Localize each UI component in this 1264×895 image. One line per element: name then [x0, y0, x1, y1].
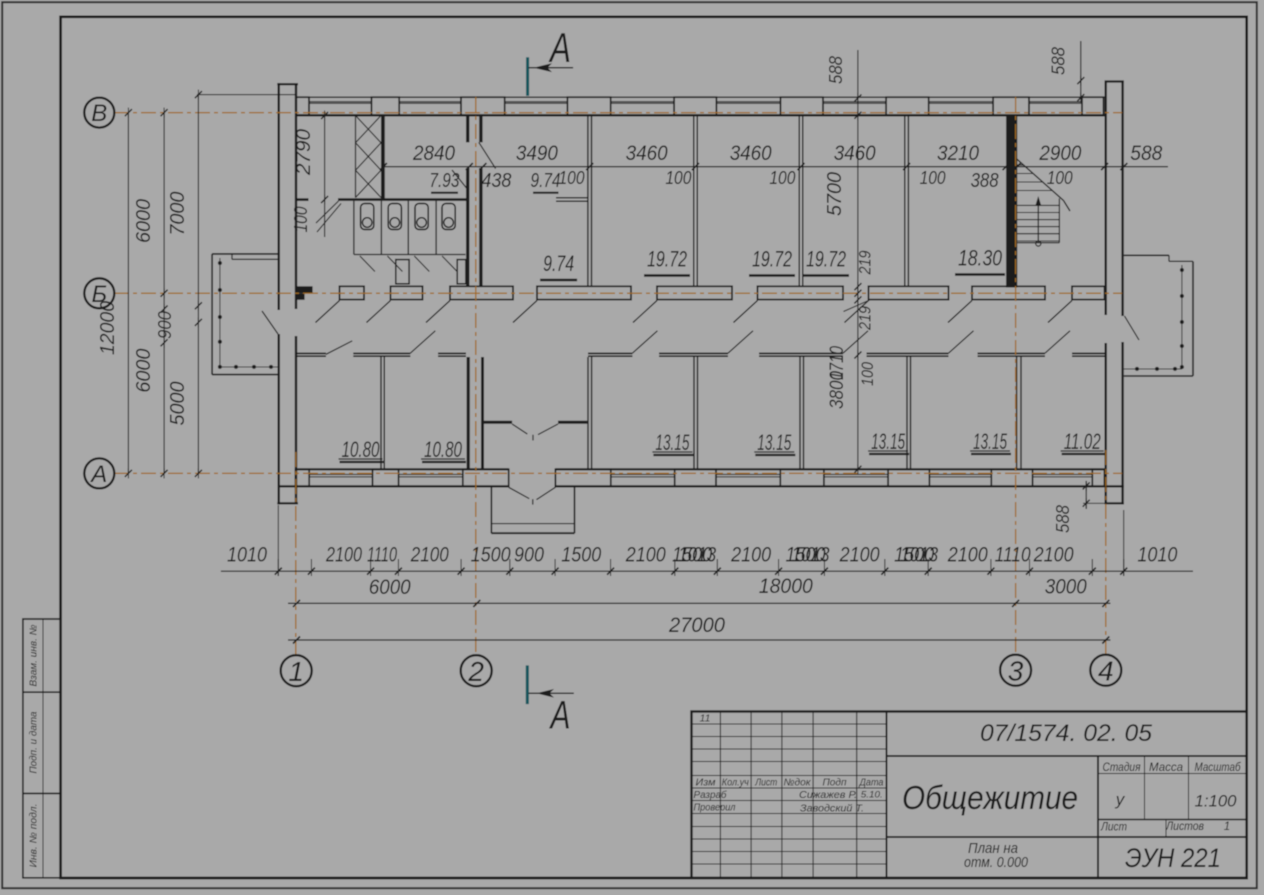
svg-text:5700: 5700 [824, 172, 846, 216]
svg-text:900: 900 [514, 544, 544, 567]
svg-text:A: A [549, 694, 570, 738]
svg-text:100: 100 [665, 168, 691, 188]
svg-text:10.80: 10.80 [342, 437, 381, 462]
svg-text:10.80: 10.80 [424, 437, 463, 462]
svg-text:3490: 3490 [516, 141, 558, 165]
svg-text:у: у [1115, 790, 1126, 809]
svg-text:19.72: 19.72 [647, 247, 687, 272]
svg-text:07/1574. 02. 05: 07/1574. 02. 05 [980, 720, 1153, 747]
svg-text:5.10.: 5.10. [861, 790, 883, 801]
svg-text:Масштаб: Масштаб [1195, 762, 1241, 774]
svg-text:ЭУН 221: ЭУН 221 [1125, 843, 1221, 873]
svg-text:438: 438 [481, 170, 511, 192]
svg-text:2100: 2100 [839, 544, 880, 567]
svg-text:4: 4 [1098, 655, 1114, 686]
svg-text:Б: Б [91, 281, 107, 308]
svg-text:Дата: Дата [859, 778, 884, 789]
svg-text:100: 100 [858, 362, 877, 386]
svg-text:1010: 1010 [1137, 544, 1177, 567]
svg-text:Кол.уч: Кол.уч [722, 778, 749, 789]
svg-text:100: 100 [920, 168, 946, 188]
svg-text:3460: 3460 [626, 141, 668, 165]
svg-text:6000: 6000 [133, 199, 155, 243]
svg-text:Заводский Т.: Заводский Т. [800, 804, 864, 815]
svg-text:1010: 1010 [227, 544, 267, 567]
svg-text:2790: 2790 [293, 129, 315, 176]
svg-text:588: 588 [826, 56, 846, 84]
svg-text:388: 388 [971, 170, 999, 192]
svg-text:2100: 2100 [1033, 544, 1074, 567]
svg-text:1: 1 [1224, 821, 1230, 833]
svg-text:11: 11 [700, 713, 711, 725]
svg-text:Изм: Изм [696, 778, 716, 789]
svg-text:2100: 2100 [947, 544, 988, 567]
svg-text:1:100: 1:100 [1195, 792, 1238, 811]
svg-text:Стадия: Стадия [1103, 762, 1141, 774]
svg-text:2: 2 [467, 656, 484, 687]
svg-text:3: 3 [1008, 655, 1024, 686]
svg-text:2100: 2100 [410, 544, 449, 567]
svg-text:Сижажев Р.: Сижажев Р. [799, 790, 857, 801]
svg-text:Взам. инв. №: Взам. инв. № [29, 624, 40, 686]
svg-text:5000: 5000 [167, 382, 189, 426]
svg-text:Подп. и дата: Подп. и дата [29, 711, 40, 773]
svg-text:2100: 2100 [325, 544, 362, 567]
svg-text:18000: 18000 [759, 575, 813, 598]
svg-text:1013: 1013 [792, 544, 830, 567]
svg-text:6000: 6000 [369, 576, 411, 599]
svg-text:7.93: 7.93 [429, 170, 459, 192]
svg-text:19.72: 19.72 [752, 247, 792, 272]
svg-text:Лист: Лист [754, 778, 777, 789]
svg-text:3000: 3000 [1045, 576, 1087, 599]
svg-text:100: 100 [291, 207, 311, 233]
svg-text:2900: 2900 [1039, 141, 1082, 165]
svg-text:1500: 1500 [561, 544, 601, 567]
svg-text:7000: 7000 [167, 192, 189, 236]
svg-text:Инв. № подл.: Инв. № подл. [29, 804, 40, 868]
svg-text:9.74: 9.74 [543, 251, 574, 276]
svg-text:6000: 6000 [133, 349, 155, 393]
svg-text:13.15: 13.15 [973, 429, 1007, 454]
svg-text:100: 100 [559, 168, 585, 188]
svg-text:900: 900 [155, 311, 175, 339]
svg-text:2100: 2100 [730, 544, 771, 567]
svg-text:1110: 1110 [367, 544, 397, 567]
svg-text:Общежитие: Общежитие [902, 779, 1078, 816]
svg-text:100: 100 [1047, 168, 1073, 188]
svg-text:3460: 3460 [834, 141, 876, 165]
svg-text:588: 588 [1053, 505, 1073, 533]
svg-text:A: A [548, 24, 571, 71]
svg-text:А: А [89, 461, 107, 488]
svg-text:1013: 1013 [678, 544, 716, 567]
svg-text:13.15: 13.15 [655, 430, 689, 455]
svg-text:1710: 1710 [827, 346, 848, 380]
svg-text:Масса: Масса [1149, 762, 1183, 774]
svg-text:Разраб: Разраб [694, 789, 727, 801]
svg-text:2100: 2100 [625, 544, 666, 567]
svg-text:588: 588 [1049, 47, 1069, 75]
svg-text:3210: 3210 [937, 141, 979, 165]
svg-text:1500: 1500 [471, 544, 511, 567]
svg-text:1110: 1110 [995, 544, 1031, 567]
svg-text:Лист: Лист [1100, 822, 1127, 834]
svg-text:1: 1 [288, 656, 304, 687]
svg-text:13.15: 13.15 [757, 430, 791, 455]
svg-text:В: В [91, 100, 107, 127]
svg-text:100: 100 [769, 168, 795, 188]
svg-text:№док: №док [784, 778, 812, 789]
svg-text:11.02: 11.02 [1064, 429, 1101, 454]
svg-text:27000: 27000 [668, 614, 725, 637]
svg-text:2840: 2840 [412, 141, 455, 165]
svg-text:588: 588 [1130, 141, 1162, 165]
svg-text:Проверил: Проверил [694, 803, 736, 814]
svg-text:отм. 0.000: отм. 0.000 [964, 855, 1028, 871]
svg-text:9.74: 9.74 [531, 170, 561, 192]
svg-text:19.72: 19.72 [806, 247, 846, 272]
svg-text:18.30: 18.30 [958, 246, 1003, 271]
svg-text:Листов: Листов [1165, 821, 1204, 833]
svg-text:Подп: Подп [823, 778, 847, 789]
svg-text:219: 219 [856, 306, 875, 331]
svg-text:1013: 1013 [900, 544, 938, 567]
svg-text:13.15: 13.15 [871, 429, 905, 454]
svg-text:3460: 3460 [730, 141, 772, 165]
svg-text:219: 219 [856, 250, 875, 275]
